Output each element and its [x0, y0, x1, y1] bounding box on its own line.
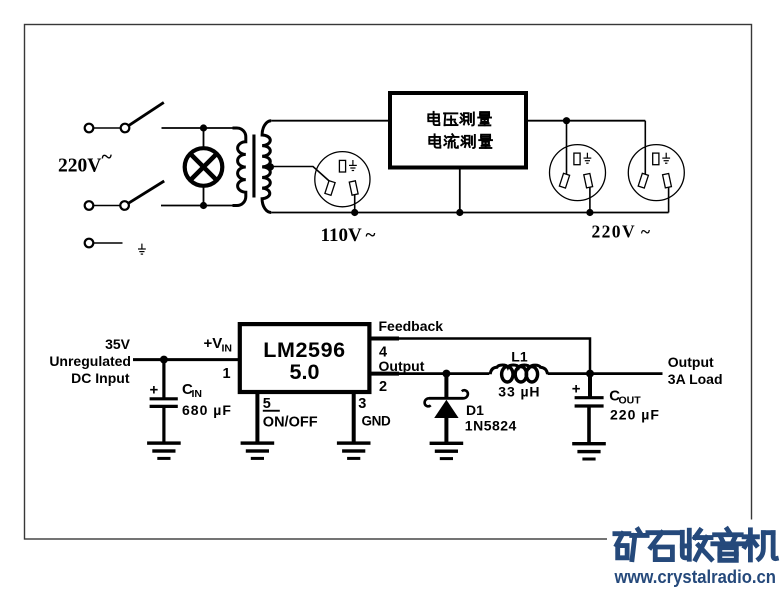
- lamp EL1: [185, 148, 223, 186]
- wire secondary top to measurement box: [271, 120, 390, 122]
- svg-text:5: 5: [263, 396, 271, 412]
- svg-text:IN: IN: [222, 342, 233, 354]
- overline ON: [263, 410, 280, 412]
- transformer T1 secondary winding: [262, 121, 271, 213]
- IC U1 LM2596 box: [240, 324, 370, 392]
- svg-text:~: ~: [102, 146, 113, 168]
- feedback wire: [371, 339, 591, 374]
- wire DC input to pin 1: [133, 358, 238, 361]
- pin 5 stub: [255, 394, 259, 442]
- svg-text:1N5824: 1N5824: [465, 417, 517, 433]
- svg-text:680 µF: 680 µF: [182, 402, 232, 418]
- svg-text:35V: 35V: [105, 336, 131, 352]
- pin 3 stub: [352, 394, 356, 442]
- svg-text:220 µF: 220 µF: [610, 407, 660, 423]
- svg-text:L1: L1: [511, 348, 528, 364]
- diode D1 triangle: [434, 400, 458, 418]
- wire T3: [94, 242, 123, 244]
- diode D1 schottky cathode bar: [429, 397, 464, 400]
- svg-text:+: +: [150, 382, 159, 399]
- switch S1 terminal circles: [85, 124, 94, 133]
- node center tap: [267, 163, 274, 170]
- ground pin3: [337, 441, 371, 460]
- svg-text:220V: 220V: [58, 155, 101, 176]
- node outlet1 bottom junction: [586, 209, 593, 216]
- outlet 220V no.1 circle: [550, 145, 606, 201]
- pin 2 stub: [371, 372, 400, 376]
- diode D1 lead bottom: [444, 418, 448, 442]
- node COUT junction: [586, 370, 594, 378]
- label dianya celiang line1: [428, 112, 491, 126]
- capacitor COUT lead bottom: [587, 406, 591, 442]
- wire secondary bottom rail: [271, 212, 668, 214]
- wire measurement box to bottom rail: [459, 168, 461, 213]
- ground pin5: [241, 441, 275, 460]
- measurement box: [390, 93, 526, 168]
- wire center tap to 110V outlet: [268, 167, 332, 184]
- svg-text:D1: D1: [466, 402, 484, 418]
- svg-text:33 µH: 33 µH: [498, 384, 540, 400]
- earth symbol at T3: [138, 244, 146, 255]
- node junction above 220V outlet 1: [563, 117, 570, 124]
- wire S1 to lamp node: [162, 127, 238, 129]
- transformer T1 primary winding: [233, 128, 246, 206]
- lamp EL1 leads: [203, 128, 205, 206]
- outlet 220V no.1 slots: [559, 153, 592, 188]
- wire 220V outlet2 right pin down to rail end: [668, 186, 670, 213]
- output wire L1 to load: [548, 372, 663, 375]
- svg-text:5.0: 5.0: [290, 360, 320, 384]
- svg-text:Output: Output: [379, 358, 425, 374]
- svg-text:IN: IN: [192, 388, 203, 400]
- capacitor CIN lead top: [162, 360, 165, 399]
- outlet 110V circle: [315, 152, 370, 207]
- switch S1 blade: [129, 102, 164, 125]
- capacitor COUT plates: [575, 398, 604, 406]
- svg-text:GND: GND: [362, 413, 391, 428]
- capacitor CIN lead bottom: [162, 406, 165, 442]
- wire 110V outlet right pin to bottom rail: [354, 192, 356, 213]
- watermark logo kuangshi shouyinji: [615, 529, 776, 560]
- svg-text:LM2596: LM2596: [263, 338, 345, 362]
- svg-text:3A Load: 3A Load: [668, 371, 723, 387]
- node box bottom junction: [456, 209, 463, 216]
- outlet 110V slots: [325, 160, 358, 195]
- node bottom lamp junction: [200, 202, 207, 209]
- label dianliu celiang line2: [429, 134, 492, 148]
- transformer T1 core: [252, 135, 255, 198]
- svg-text:+V: +V: [204, 335, 223, 352]
- switch S1 link wire: [94, 127, 121, 129]
- svg-text:2: 2: [379, 379, 387, 395]
- wire down to 220V outlet 2: [644, 121, 646, 178]
- svg-text:Output: Output: [668, 354, 714, 370]
- svg-text:220V ~: 220V ~: [592, 222, 651, 242]
- terminal T3 circle: [85, 239, 94, 248]
- switch S2 terminal circles: [85, 201, 94, 210]
- svg-text:110V ~: 110V ~: [321, 225, 376, 246]
- svg-text:1: 1: [223, 366, 231, 382]
- watermark background: [607, 520, 780, 590]
- wire S2 to lamp node: [161, 205, 237, 207]
- svg-text:Feedback: Feedback: [379, 318, 444, 334]
- ground CIN: [147, 441, 181, 460]
- capacitor CIN plates: [150, 399, 178, 407]
- output wire pin2 to L1: [371, 372, 490, 375]
- svg-text:+: +: [572, 381, 581, 398]
- outlet 220V no.2 circle: [628, 145, 684, 201]
- diode D1 lead top: [444, 374, 448, 397]
- node diode junction: [442, 370, 450, 378]
- ground D1: [430, 442, 464, 461]
- svg-text:ON/OFF: ON/OFF: [263, 415, 318, 431]
- svg-text:Unregulated: Unregulated: [49, 353, 131, 369]
- capacitor COUT lead top: [588, 374, 592, 398]
- inductor L1: [490, 365, 547, 374]
- wire 220V outlet1 right pin down: [589, 186, 591, 213]
- node top lamp junction: [200, 124, 207, 131]
- feedback stub: [371, 337, 400, 341]
- measurement box wire right: [526, 120, 645, 122]
- svg-text:OUT: OUT: [619, 395, 642, 407]
- wire down to 220V outlet 1: [566, 121, 568, 178]
- node input junction: [160, 356, 168, 364]
- switch S2 blade: [129, 181, 165, 203]
- svg-text:DC Input: DC Input: [71, 370, 130, 386]
- node 110V outlet bottom junction: [351, 209, 358, 216]
- svg-text:www.crystalradio.cn: www.crystalradio.cn: [614, 567, 776, 587]
- outlet 220V no.2 slots: [638, 153, 671, 188]
- svg-text:3: 3: [358, 396, 366, 412]
- ground COUT: [572, 442, 606, 461]
- switch S2 link wire: [94, 205, 121, 207]
